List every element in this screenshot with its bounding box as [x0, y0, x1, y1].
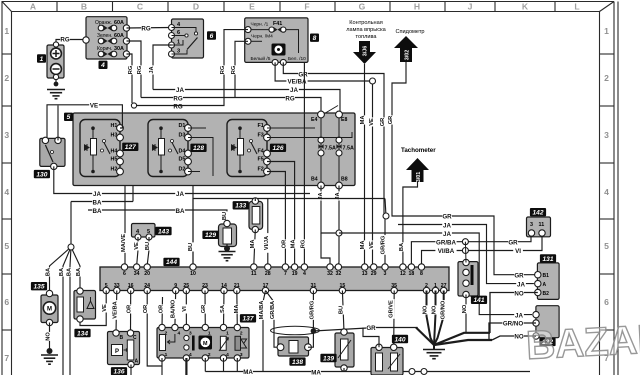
svg-text:GR/RG: GR/RG — [309, 300, 315, 319]
svg-text:6: 6 — [210, 33, 214, 40]
wire GR/VE pin35 to 140 — [393, 291, 396, 348]
label 129 — [202, 231, 218, 240]
svg-text:VE: VE — [102, 304, 108, 312]
watermark — [525, 317, 640, 368]
label 1 — [37, 54, 46, 63]
wire GR/RG node to pin 3 — [384, 216, 386, 265]
svg-text:133: 133 — [235, 203, 246, 210]
svg-text:5: 5 — [4, 241, 9, 251]
label 141 — [471, 296, 487, 305]
svg-text:RG: RG — [300, 239, 306, 248]
svg-text:129: 129 — [205, 232, 216, 239]
wire 130 second pin — [57, 106, 59, 141]
svg-text:Зелен.: Зелен. — [97, 33, 112, 39]
connector 142 — [527, 217, 551, 237]
svg-text:1: 1 — [165, 352, 168, 358]
svg-text:J: J — [468, 2, 473, 12]
svg-text:NO: NO — [423, 305, 429, 314]
svg-text:GR: GR — [380, 118, 386, 127]
grid letters — [30, 2, 580, 12]
svg-text:4: 4 — [303, 271, 306, 277]
svg-text:5: 5 — [67, 114, 71, 121]
svg-text:141: 141 — [473, 297, 484, 304]
wire 133 top to signal row — [254, 199, 256, 202]
node VI/BA 141 — [462, 248, 468, 254]
wire MA pin21 to 137 — [236, 291, 239, 328]
wire RG feed row — [141, 98, 321, 112]
svg-text:4: 4 — [100, 62, 105, 69]
svg-text:MA: MA — [291, 240, 297, 249]
svg-text:12: 12 — [400, 271, 406, 277]
svg-text:G: G — [359, 2, 366, 12]
svg-text:GR: GR — [508, 239, 518, 246]
svg-text:138: 138 — [292, 359, 303, 366]
svg-text:Контрольная: Контрольная — [349, 20, 383, 26]
svg-text:NO: NO — [514, 334, 523, 341]
svg-text:GR/VE: GR/VE — [389, 300, 395, 318]
svg-text:11: 11 — [539, 222, 545, 228]
arrow 3/02 up — [394, 36, 418, 62]
ground 129 — [219, 252, 236, 261]
svg-text:OR: OR — [143, 305, 149, 314]
svg-text:29: 29 — [371, 271, 377, 277]
fuel pump 135 — [41, 290, 58, 325]
svg-text:19: 19 — [292, 271, 298, 277]
svg-text:Оранж.: Оранж. — [95, 20, 112, 26]
svg-text:BU: BU — [145, 242, 151, 250]
svg-text:M: M — [47, 307, 52, 313]
label 138 — [289, 357, 305, 366]
svg-text:GR: GR — [298, 71, 308, 78]
svg-text:F4: F4 — [258, 148, 264, 154]
svg-text:32: 32 — [336, 271, 342, 277]
svg-text:18: 18 — [409, 271, 415, 277]
wire MA bottom rail — [205, 371, 530, 373]
battery ground wire — [47, 79, 65, 99]
svg-text:BA: BA — [59, 268, 65, 276]
svg-text:VE/BA: VE/BA — [112, 301, 118, 318]
svg-text:MA: MA — [234, 305, 240, 314]
svg-text:GR: GR — [201, 305, 207, 314]
wire GR/RG pin31 to junction — [312, 291, 314, 332]
svg-text:8: 8 — [313, 35, 317, 42]
svg-text:топлива: топлива — [355, 34, 377, 40]
wire JA from B4 — [321, 186, 339, 234]
svg-text:130: 130 — [36, 171, 47, 178]
svg-text:2: 2 — [425, 283, 428, 289]
wire relay bottom to BA line — [132, 186, 134, 202]
svg-text:MA/BA: MA/BA — [259, 301, 265, 320]
label RG battery wire — [60, 36, 70, 43]
svg-text:24: 24 — [144, 283, 150, 289]
connector 132 — [533, 306, 559, 339]
wire NO 132 — [492, 336, 536, 340]
label 126 — [270, 144, 286, 153]
label 137 — [240, 314, 256, 323]
svg-text:BA: BA — [76, 268, 82, 276]
wire MA lamp to pin 13 — [364, 64, 366, 265]
svg-text:15: 15 — [340, 283, 346, 289]
svg-text:B: B — [81, 2, 87, 12]
ECU connector 144 — [100, 264, 449, 294]
wire GR/BA pin18 to 142 — [411, 237, 531, 265]
svg-text:17: 17 — [263, 283, 269, 289]
svg-text:MA: MA — [311, 370, 321, 376]
wire VE 143 to pin 34 — [137, 237, 138, 265]
wire OR pin24 down — [147, 291, 162, 367]
node JA junction — [336, 230, 342, 236]
label 127 — [122, 143, 138, 152]
svg-text:E: E — [249, 2, 255, 12]
injection warning lamp text — [346, 20, 386, 40]
svg-text:Белый /5: Белый /5 — [251, 55, 271, 62]
svg-text:127: 127 — [125, 144, 136, 151]
svg-text:2: 2 — [240, 331, 243, 337]
wire D stubs — [188, 127, 206, 129]
wire JA row to 131 A — [398, 225, 534, 284]
svg-text:BA: BA — [93, 208, 102, 215]
svg-text:VI: VI — [182, 306, 188, 312]
svg-text:JA: JA — [176, 87, 184, 94]
wire VI/JA to pin 28 — [267, 199, 269, 266]
svg-text:VI/BA: VI/BA — [438, 248, 455, 255]
wire GR speedometer — [392, 62, 538, 275]
svg-text:11: 11 — [251, 271, 257, 277]
svg-text:NO: NO — [462, 304, 468, 313]
svg-text:3: 3 — [604, 130, 609, 140]
svg-text:OR: OR — [159, 305, 165, 314]
connector 143 — [132, 224, 156, 241]
wire BA/NO pin9 to 137 — [174, 291, 177, 328]
relay 127 — [80, 120, 123, 177]
wire OR pin16 to 136 — [130, 291, 132, 334]
wire 136 A down — [130, 365, 132, 376]
svg-text:25: 25 — [183, 283, 189, 289]
svg-text:JA: JA — [443, 222, 451, 229]
wire F1 stub — [267, 127, 315, 129]
svg-text:GR/BA: GR/BA — [270, 301, 276, 319]
wire OR to 137 — [161, 297, 164, 328]
relay 128 — [148, 120, 191, 177]
svg-text:MA: MA — [243, 369, 253, 375]
svg-text:GR: GR — [366, 325, 376, 332]
wire JA ignition feed — [153, 90, 340, 112]
wire relay 128 to pin 10 — [192, 186, 194, 266]
wire VI/BA pin8 to 142 — [422, 237, 543, 265]
label 5 — [64, 113, 73, 122]
wire JA from 130 bottom — [54, 166, 310, 193]
svg-text:F1: F1 — [258, 123, 264, 129]
svg-text:BA: BA — [176, 208, 185, 215]
svg-text:RG: RG — [173, 103, 182, 110]
svg-text:BAZAR: BAZAR — [525, 317, 640, 368]
svg-text:JA: JA — [176, 191, 184, 198]
svg-text:RG: RG — [141, 26, 150, 33]
svg-text:BU: BU — [188, 243, 194, 251]
node GR/BA 141 — [462, 239, 468, 245]
svg-text:3: 3 — [384, 271, 387, 277]
wire RG to pin 4 — [303, 63, 305, 265]
wire BA tachometer to pin 12 — [403, 182, 418, 265]
sensor 136 — [108, 330, 140, 368]
svg-text:2: 2 — [4, 73, 9, 83]
wire signal row end to node — [385, 199, 386, 217]
svg-text:140: 140 — [394, 336, 405, 343]
wire MA 133 to pin 11 — [254, 230, 256, 266]
svg-text:OR: OR — [127, 305, 133, 314]
svg-text:JA: JA — [93, 191, 101, 198]
svg-text:H: H — [414, 2, 420, 12]
svg-text:7: 7 — [284, 271, 287, 277]
label 4 — [99, 61, 108, 70]
label 130 — [34, 170, 50, 179]
label 8 — [310, 34, 319, 43]
wire SA pin14 to 137 — [223, 291, 226, 328]
svg-text:128: 128 — [193, 145, 204, 152]
svg-text:8: 8 — [420, 271, 423, 277]
wire 140 to GR line — [363, 328, 379, 348]
svg-text:139: 139 — [323, 355, 334, 362]
label 136 — [111, 367, 127, 376]
svg-text:Черн. /1: Черн. /1 — [251, 21, 269, 27]
svg-text:B1: B1 — [543, 273, 550, 279]
svg-text:7.5A: 7.5A — [343, 146, 354, 152]
label 132 — [539, 338, 555, 347]
wire RG battery to fusebox — [56, 40, 86, 45]
svg-text:лампа впрыска: лампа впрыска — [346, 27, 386, 33]
svg-text:10: 10 — [190, 271, 196, 277]
arrow 3/J6 down — [353, 41, 376, 64]
svg-text:L: L — [574, 2, 579, 12]
svg-text:9: 9 — [174, 283, 177, 289]
wire VE to relay 127 H1 — [47, 105, 122, 141]
sensor 134 — [74, 288, 96, 322]
svg-text:RG: RG — [173, 95, 182, 102]
svg-text:142: 142 — [532, 210, 543, 217]
ground fan right lower — [434, 340, 492, 345]
wires 137 bottom — [162, 358, 237, 375]
svg-text:3: 3 — [4, 130, 9, 140]
wire GR from component 8 — [283, 62, 384, 216]
svg-text:Tachometer: Tachometer — [401, 147, 436, 154]
svg-text:VI/JA: VI/JA — [264, 236, 270, 250]
relay 126 — [227, 120, 270, 177]
knock sensor 138 shield loop — [271, 326, 320, 335]
svg-text:4: 4 — [226, 352, 229, 358]
svg-text:3/J6: 3/J6 — [363, 46, 369, 57]
svg-text:7: 7 — [4, 353, 9, 363]
svg-text:RG: RG — [285, 95, 294, 102]
knock sensor 138 — [277, 337, 311, 356]
svg-text:B4: B4 — [311, 177, 318, 183]
label 144 — [163, 258, 179, 267]
svg-text:3: 3 — [189, 331, 192, 337]
svg-text:3: 3 — [240, 352, 243, 358]
wire MA/BA pin17 down — [263, 291, 266, 372]
svg-text:E8: E8 — [341, 117, 347, 123]
wire VI pin25 to 137 — [185, 291, 187, 328]
svg-text:35: 35 — [391, 283, 397, 289]
label 143 — [155, 227, 171, 236]
wire JA row to 132 — [339, 233, 532, 315]
svg-text:D: D — [193, 2, 199, 12]
wire MA/VE relay to pin 6 — [124, 186, 126, 266]
svg-text:14: 14 — [221, 283, 227, 289]
svg-text:1: 1 — [226, 331, 229, 337]
svg-text:GR: GR — [514, 273, 524, 280]
svg-text:20: 20 — [144, 271, 150, 277]
wire BA row to node — [71, 201, 133, 203]
svg-text:134: 134 — [77, 330, 88, 337]
ground fan left — [416, 328, 434, 346]
wire JA from switch pin1 — [153, 45, 172, 90]
svg-text:P: P — [115, 349, 119, 355]
svg-text:27: 27 — [441, 283, 447, 289]
wire RG fusebox row3 down — [127, 54, 133, 103]
wire VE/BA pin33 to 136 — [115, 291, 118, 334]
svg-text:A: A — [135, 359, 139, 365]
svg-text:K: K — [522, 2, 529, 12]
connector 141 — [458, 259, 478, 297]
sensor 140 — [371, 344, 403, 375]
wire NO 141 to ground — [465, 295, 467, 333]
fuse box 4 — [83, 17, 130, 59]
svg-text:GR: GR — [442, 214, 452, 221]
svg-text:GR: GR — [388, 116, 394, 125]
svg-text:VE: VE — [369, 241, 375, 249]
svg-text:1: 1 — [4, 26, 9, 36]
label RG row2 — [173, 103, 183, 110]
svg-text:JA: JA — [443, 231, 451, 238]
wire BU pin15 to 139 — [342, 291, 344, 333]
svg-text:136: 136 — [113, 369, 124, 375]
wire VE down to pin 29 — [372, 84, 374, 265]
label BU pin 10 — [187, 242, 194, 251]
component 8 box — [245, 18, 308, 66]
svg-text:E4: E4 — [311, 117, 317, 123]
node VE/BA to VE — [370, 78, 376, 84]
svg-text:GR/NO: GR/NO — [503, 321, 523, 328]
svg-text:28: 28 — [265, 271, 271, 277]
label 140 — [392, 335, 408, 344]
svg-text:F: F — [304, 2, 309, 12]
svg-text:B8: B8 — [341, 177, 348, 183]
svg-text:GR/RG: GR/RG — [381, 235, 387, 254]
svg-text:RG: RG — [231, 65, 237, 74]
svg-text:B: B — [120, 335, 124, 341]
svg-text:BA: BA — [67, 268, 73, 276]
svg-text:7.5A: 7.5A — [325, 146, 336, 152]
svg-text:Черн. /М4: Черн. /М4 — [251, 33, 273, 39]
svg-text:B2: B2 — [543, 291, 550, 297]
svg-text:JA: JA — [515, 312, 523, 319]
svg-text:A: A — [543, 282, 547, 288]
svg-text:RG: RG — [128, 65, 134, 74]
svg-text:SA: SA — [220, 305, 226, 313]
svg-text:5: 5 — [604, 241, 609, 251]
svg-text:23: 23 — [202, 283, 208, 289]
wire F5 MA to pin 19 — [267, 162, 295, 266]
svg-text:NO: NO — [46, 332, 52, 341]
svg-text:4: 4 — [604, 187, 609, 197]
svg-text:VE: VE — [369, 118, 375, 126]
svg-text:NO: NO — [514, 290, 523, 297]
wire VE pin5 to 134 — [80, 291, 106, 326]
battery 1 — [47, 42, 64, 80]
label 128 — [190, 144, 206, 153]
relay carrier box — [73, 113, 355, 186]
label 133 — [233, 201, 249, 210]
svg-text:BA: BA — [93, 199, 102, 206]
svg-text:RG: RG — [220, 65, 226, 74]
main ground — [423, 345, 445, 359]
label 142 — [530, 208, 546, 217]
svg-text:135: 135 — [33, 284, 44, 291]
svg-text:JA: JA — [290, 87, 298, 94]
auxiliary fuses E4 E8 — [311, 106, 354, 189]
svg-text:21: 21 — [234, 283, 240, 289]
label 6 — [207, 31, 216, 40]
label 131 — [540, 254, 556, 262]
svg-text:BA: BA — [399, 243, 405, 251]
label 139 — [320, 354, 336, 363]
svg-text:1: 1 — [604, 26, 609, 36]
svg-text:2: 2 — [604, 73, 609, 83]
wire GR/NO 132 — [489, 323, 536, 340]
wire BA node fan — [50, 202, 81, 376]
svg-text:144: 144 — [166, 259, 177, 266]
wire VE/BA from component 8 — [275, 62, 372, 81]
wire NO pin2 to ground — [427, 291, 435, 346]
svg-text:VE: VE — [90, 102, 98, 109]
svg-text:3: 3 — [530, 222, 533, 228]
svg-text:1: 1 — [434, 283, 437, 289]
svg-text:M: M — [203, 341, 208, 347]
svg-text:JA: JA — [149, 66, 155, 73]
node GR junction — [383, 213, 389, 219]
ignition switch 6 — [169, 19, 204, 58]
svg-text:34: 34 — [134, 271, 140, 277]
svg-text:VI: VI — [515, 248, 521, 255]
svg-text:BA: BA — [46, 268, 52, 276]
svg-text:NO: NO — [432, 305, 438, 314]
svg-text:4: 4 — [189, 352, 192, 358]
svg-text:126: 126 — [272, 145, 283, 152]
svg-text:137: 137 — [242, 316, 253, 323]
svg-text:143: 143 — [158, 228, 169, 235]
wire RG row2 — [134, 30, 248, 106]
arrow 3/01 tachometer — [406, 158, 429, 182]
svg-text:3/01: 3/01 — [416, 172, 422, 183]
wire GR junction to ground — [308, 328, 418, 348]
svg-text:RG: RG — [60, 37, 69, 44]
svg-text:Бел. /10: Бел. /10 — [288, 56, 306, 62]
wire RG fusebox to ignition switch — [127, 27, 171, 30]
svg-text:13: 13 — [362, 271, 368, 277]
wire BU 143 to pin 20 — [147, 237, 149, 265]
svg-text:MA: MA — [250, 240, 256, 249]
label 134 — [74, 329, 90, 338]
connector 131 — [535, 263, 560, 300]
svg-text:4: 4 — [178, 331, 181, 337]
svg-text:MA: MA — [360, 116, 366, 125]
svg-text:Корич.: Корич. — [97, 46, 112, 52]
wire GR/BA pin17 to 138 — [266, 291, 278, 348]
svg-text:131: 131 — [542, 256, 553, 263]
svg-text:6: 6 — [604, 297, 609, 307]
svg-text:MA: MA — [360, 241, 366, 250]
wire BA row to 129 — [88, 210, 227, 224]
